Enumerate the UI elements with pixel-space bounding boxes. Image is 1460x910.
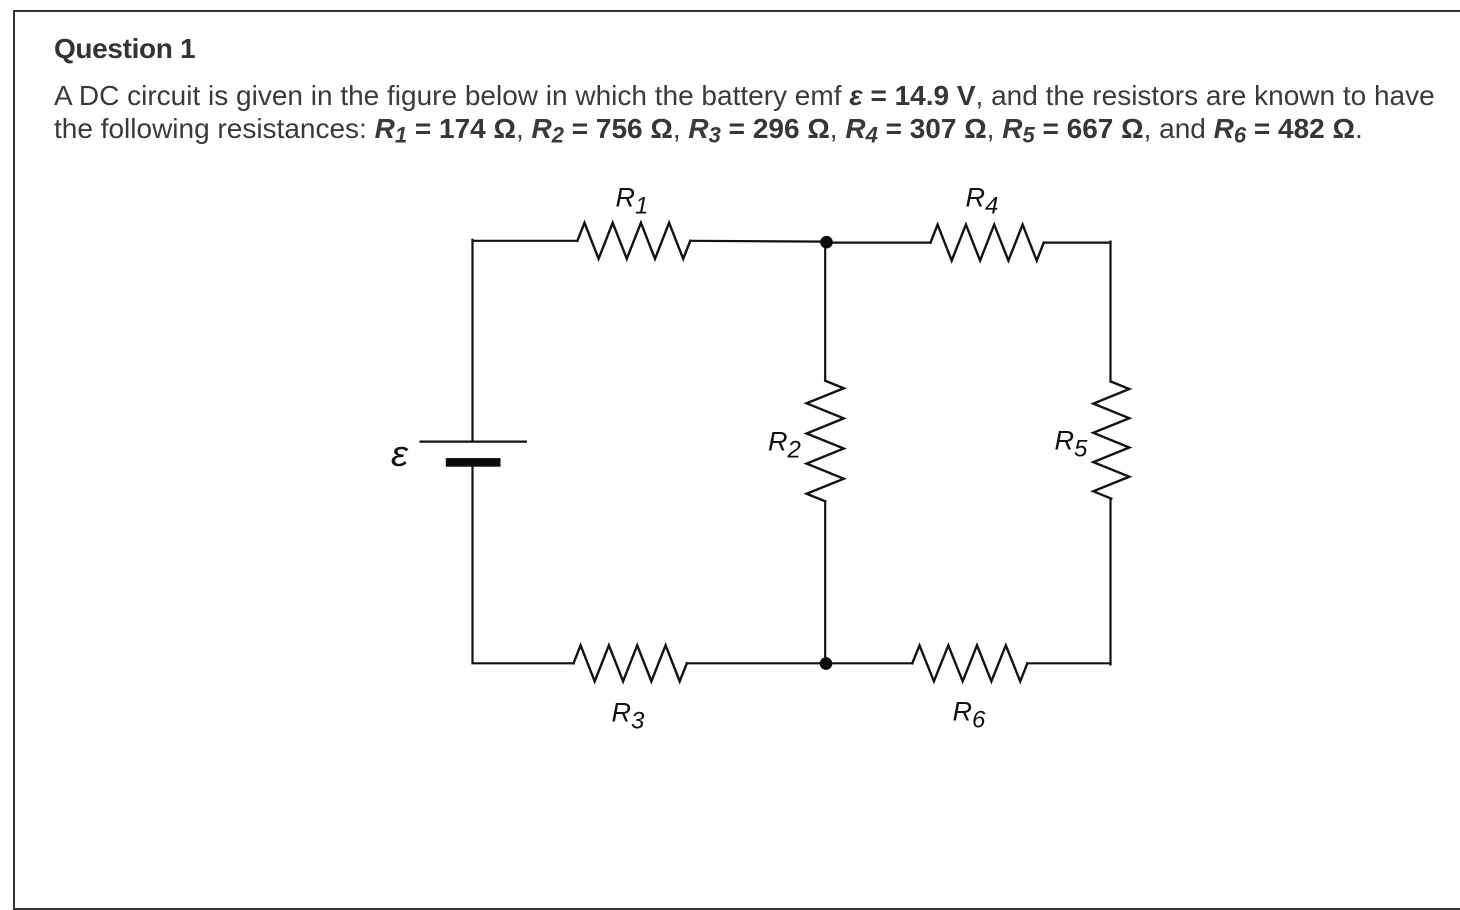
- node A junction dot: [820, 236, 833, 249]
- svg-text:R2: R2: [768, 427, 801, 464]
- svg-text:R3: R3: [612, 698, 646, 735]
- svg-text:R4: R4: [966, 183, 999, 220]
- resistor R4: [931, 225, 1044, 261]
- wire left branch upper (top corner down to battery): [471, 240, 473, 441]
- wire top-left horizontal (battery + to R1): [473, 240, 578, 242]
- wire R6 to bottom-right corner: [1027, 662, 1110, 664]
- heading: [54, 33, 195, 65]
- paragraph: [54, 79, 1435, 152]
- battery EMF symbol: long plate: [421, 441, 526, 443]
- svg-text:R1: R1: [616, 183, 649, 220]
- svg-text:ε: ε: [391, 433, 409, 474]
- svg-text:R6: R6: [953, 697, 987, 734]
- node B junction dot: [820, 657, 833, 670]
- resistor R2: [807, 381, 844, 502]
- wire R1 to node A: [690, 240, 826, 243]
- wire node B to R6: [826, 662, 912, 664]
- wire middle branch lower (R2 to node B): [824, 501, 826, 663]
- resistor R3: [574, 645, 687, 681]
- wire node A to R4: [827, 242, 931, 244]
- resistor R6: [912, 645, 1027, 681]
- battery EMF symbol: short thick plate: [446, 458, 501, 467]
- wire right branch upper (top corner to R5): [1109, 242, 1111, 382]
- svg-text:R5: R5: [1055, 426, 1089, 463]
- wire left branch lower (battery to bottom corner): [473, 467, 574, 664]
- wire R3 to node B: [687, 662, 826, 664]
- wire R4 to top-right corner: [1044, 242, 1111, 244]
- wire middle branch upper (node A to R2): [824, 242, 826, 381]
- resistor R1: [577, 223, 690, 259]
- resistor R5: [1093, 382, 1129, 499]
- wire right branch lower (R5 to bottom corner): [1109, 499, 1111, 665]
